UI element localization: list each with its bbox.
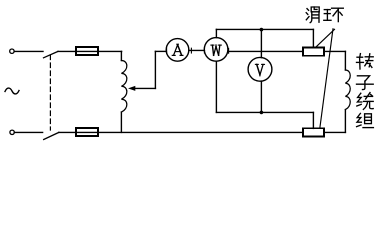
wire [154, 51, 156, 88]
ammeter A1 [166, 39, 189, 62]
AC source symbol ~ [5, 88, 19, 94]
node (lower bus / voltmeter) [260, 111, 264, 115]
wire top bus [216, 28, 313, 30]
switch S2 blade [44, 132, 59, 139]
wire rotor top [344, 51, 346, 70]
terminal tick [166, 48, 168, 53]
char 转 [357, 54, 374, 69]
inductor L (autotransformer) [121, 61, 126, 113]
voltmeter V1 [248, 57, 272, 81]
char 环 [324, 8, 344, 21]
switch S1 blade [44, 51, 59, 57]
wire W bottom [215, 61, 217, 112]
node (top bus / voltmeter) [260, 28, 264, 32]
wire top bus drop [312, 29, 314, 47]
wire tap [134, 87, 155, 89]
wire mid bus [228, 50, 303, 52]
label 滑环 (slip rings), hand-drawn strokes [306, 7, 343, 23]
char 绕 [357, 93, 373, 110]
slip ring (bottom) [303, 128, 324, 136]
leader line to top slip ring [316, 29, 335, 47]
wattmeter W1 [204, 38, 228, 62]
wire lower measurement bus [216, 111, 313, 113]
char 组 [357, 113, 374, 127]
wire [324, 50, 345, 52]
wire V bottom [260, 81, 262, 112]
label W [211, 45, 221, 55]
wire [14, 50, 43, 52]
leader line to bottom slip ring [320, 29, 333, 129]
slip ring (top) [303, 47, 324, 55]
wire [155, 50, 166, 52]
wire [14, 131, 42, 133]
wire W top [215, 29, 217, 37]
label A [172, 44, 183, 55]
terminal L1 [10, 49, 14, 53]
char 子 [357, 76, 374, 90]
wire bottom bus [59, 131, 303, 133]
char 滑 [306, 7, 319, 23]
wire [58, 50, 122, 52]
wire V top [260, 30, 262, 58]
terminal tick [228, 48, 230, 53]
wire [189, 49, 205, 51]
switch linkage (dashed) [49, 55, 51, 130]
fuse FU2 [76, 128, 98, 136]
wire [120, 51, 122, 60]
fuse FU1 [76, 47, 98, 55]
wire [324, 131, 345, 133]
wire rotor bottom [344, 110, 346, 133]
rotor winding coil [345, 70, 350, 110]
tap arrow [128, 86, 135, 91]
wire drop to slip ring [312, 112, 314, 128]
label 转子绕组 (rotor winding), hand-drawn strokes [357, 54, 374, 128]
label V [255, 64, 264, 76]
terminal tick [190, 48, 192, 53]
terminal tick [203, 48, 205, 53]
wire [120, 112, 122, 132]
terminal L2 [10, 130, 14, 134]
